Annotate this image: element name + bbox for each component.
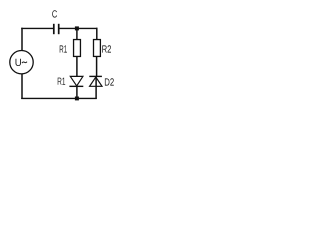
node A junction dot top [75, 26, 79, 30]
diode D2 cathode bar [89, 75, 102, 77]
wire top right horizontal [59, 27, 97, 29]
label R2 [102, 45, 111, 52]
wire left vertical upper [21, 28, 23, 51]
wire stub dot to R1 [76, 28, 78, 39]
wire D1 to bottom [76, 86, 78, 98]
capacitor C1 right plate [58, 24, 60, 34]
resistor R1 body [74, 40, 81, 57]
wire R2 to D2 [96, 56, 98, 76]
voltage source U circle [10, 51, 33, 74]
capacitor C1 left plate [53, 24, 55, 34]
label U~ [16, 59, 22, 66]
tilde of U~ [22, 62, 27, 63]
wire left vertical lower [21, 74, 23, 99]
label D2 [105, 78, 114, 85]
wire D2 to bottom corner [95, 76, 97, 99]
node B junction dot bottom [75, 97, 79, 101]
diode D1 cathode bar [69, 85, 83, 87]
wire R1 to diode [76, 56, 78, 76]
diode D2 triangle (cathode up) [90, 77, 102, 86]
wire top left horizontal [21, 27, 53, 29]
resistor R2 body [94, 40, 101, 57]
label C [52, 10, 57, 17]
wire right vertical top stub [96, 28, 98, 40]
diode D1 triangle (cathode down) [70, 76, 83, 86]
wire bottom horizontal [21, 97, 97, 99]
label R1 [58, 78, 65, 85]
label R1 [60, 45, 67, 52]
